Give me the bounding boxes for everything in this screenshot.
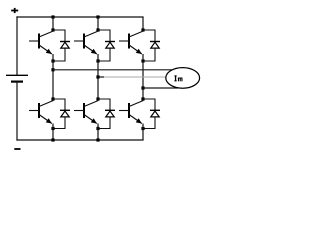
node emitter Q1b	[51, 127, 54, 130]
motor IM	[166, 68, 200, 89]
wire phase A to motor	[53, 69, 172, 71]
wire diode branch top D2b	[98, 99, 110, 110]
wire diode branch top D1	[53, 30, 65, 42]
node collector Q3	[141, 28, 144, 31]
diode D3b	[150, 110, 160, 117]
node top bus junction leg 1	[51, 15, 54, 18]
diode D2	[105, 42, 115, 49]
wire diode anode return D2	[98, 48, 110, 61]
wire phase leg 2 vertical	[97, 54, 99, 99]
wire diode branch top D1b	[53, 99, 65, 110]
wire bus to collector Q1	[52, 17, 54, 30]
top DC bus wire	[16, 16, 143, 18]
node collector Q1b	[51, 97, 54, 100]
node collector Q1	[51, 28, 54, 31]
wire emitter to bottom bus leg 2	[97, 124, 99, 141]
bottom DC bus wire	[16, 139, 143, 141]
node collector Q2	[96, 28, 99, 31]
node collector Q2b	[96, 97, 99, 100]
node emitter Q3	[141, 59, 144, 62]
diode D3	[150, 42, 160, 49]
diode D1b	[60, 110, 70, 117]
diode D2b	[105, 110, 115, 117]
wire diode branch top D3b	[143, 99, 155, 110]
node bottom bus junction leg 2	[96, 138, 99, 141]
transistor Q1	[29, 31, 53, 54]
wire phase C to motor	[143, 87, 178, 89]
transistor Q2	[74, 31, 98, 54]
wire diode branch top D2	[98, 30, 110, 42]
wire diode anode return D1b	[53, 117, 65, 129]
wire diode anode return D1	[53, 48, 65, 61]
wire phase leg 3 vertical	[142, 54, 144, 99]
wire diode branch top D3	[143, 30, 155, 42]
wire left rail lower	[16, 82, 18, 141]
node bottom bus junction leg 1	[51, 138, 54, 141]
transistor Q3	[119, 31, 143, 54]
DC source V1	[6, 75, 28, 81]
wire diode anode return D3	[143, 48, 155, 61]
transistor Q3b	[119, 101, 143, 124]
plus label	[11, 8, 18, 13]
wire emitter to bottom bus leg 3	[142, 124, 144, 141]
transistor Q1b	[29, 101, 53, 124]
node phase tap 1	[51, 68, 54, 71]
node top bus junction leg 2	[96, 15, 99, 18]
wire bus to collector Q2	[97, 17, 99, 30]
wire left rail upper	[16, 16, 18, 75]
wire diode anode return D3b	[143, 117, 155, 129]
wire phase leg 1 vertical	[52, 54, 54, 99]
node phase tap 2	[96, 75, 99, 78]
node phase tap 3	[141, 86, 144, 89]
node emitter Q2b	[96, 127, 99, 130]
node collector Q3b	[141, 97, 144, 100]
node emitter Q1	[51, 59, 54, 62]
wire bus to collector Q3	[142, 17, 144, 30]
wire diode anode return D2b	[98, 117, 110, 129]
wire emitter to bottom bus leg 1	[52, 124, 54, 141]
diode D1	[60, 42, 70, 49]
transistor Q2b	[74, 101, 98, 124]
node emitter Q2	[96, 59, 99, 62]
node emitter Q3b	[141, 127, 144, 130]
minus label	[14, 148, 20, 150]
wire phase B to motor	[98, 76, 167, 78]
